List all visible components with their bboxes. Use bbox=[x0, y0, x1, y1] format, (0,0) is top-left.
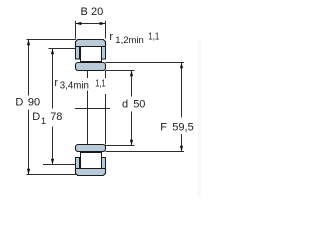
D arrow up bbox=[27, 40, 30, 46]
svg-text:1,1: 1,1 bbox=[95, 79, 106, 90]
leader vertical right bbox=[105, 71, 107, 145]
svg-text:1: 1 bbox=[41, 116, 46, 126]
B extension line left bbox=[75, 21, 77, 39]
B arrow right bbox=[100, 22, 106, 25]
d dimension line bbox=[131, 71, 133, 146]
svg-text:d: d bbox=[122, 99, 128, 111]
svg-text:90: 90 bbox=[28, 96, 40, 108]
F dimension line bbox=[181, 63, 183, 152]
leader vertical left bbox=[87, 71, 89, 145]
F arrow down bbox=[180, 146, 183, 152]
D1 extension line top bbox=[49, 48, 77, 50]
F arrow up bbox=[180, 63, 183, 69]
D1 extension line bottom bbox=[43, 164, 76, 166]
outer ring right flange (bottom) bbox=[102, 158, 106, 169]
roller (bottom) bbox=[81, 153, 102, 169]
D1 arrow down bbox=[51, 159, 54, 165]
svg-text:20: 20 bbox=[91, 6, 103, 18]
d arrow up bbox=[130, 71, 133, 77]
d extension line top bbox=[106, 70, 135, 72]
D dimension line bbox=[28, 40, 30, 175]
svg-text:1,2min: 1,2min bbox=[115, 35, 144, 46]
svg-text:D: D bbox=[15, 96, 23, 108]
B arrow left bbox=[76, 22, 82, 25]
outer ring left flange (bottom) bbox=[76, 158, 80, 169]
outer ring right flange bbox=[102, 47, 106, 60]
faint right edge strip bbox=[198, 40, 202, 197]
svg-text:1,1: 1,1 bbox=[148, 32, 159, 43]
roller (top) bbox=[81, 47, 102, 62]
svg-text:3,4min: 3,4min bbox=[60, 81, 89, 92]
outer ring band (bottom) bbox=[76, 169, 106, 176]
inner ring (bottom) bbox=[76, 145, 106, 152]
F extension line top bbox=[106, 62, 185, 64]
white boxes under labels (break dimension lines) bbox=[13, 96, 47, 110]
svg-text:D: D bbox=[32, 111, 40, 123]
svg-text:59,5: 59,5 bbox=[172, 122, 193, 134]
B dimension line bbox=[76, 23, 106, 25]
svg-text:r: r bbox=[54, 77, 58, 89]
d arrow down bbox=[130, 140, 133, 146]
axis cross line bbox=[75, 108, 110, 110]
D extension line top bbox=[27, 39, 77, 41]
inner ring (top) bbox=[76, 63, 106, 71]
D1 arrow up bbox=[51, 49, 54, 55]
B extension line right bbox=[105, 21, 107, 39]
svg-text:r: r bbox=[109, 31, 113, 43]
F extension line bottom bbox=[106, 151, 185, 153]
svg-text:F: F bbox=[160, 122, 167, 134]
D1 dimension line bbox=[52, 49, 54, 165]
outer ring left flange bbox=[76, 47, 80, 60]
svg-text:B: B bbox=[81, 6, 88, 18]
svg-text:78: 78 bbox=[50, 111, 62, 123]
d extension line bottom bbox=[106, 145, 135, 147]
D extension line bottom bbox=[27, 174, 77, 176]
outer ring band (top) bbox=[76, 40, 106, 47]
D arrow down bbox=[27, 169, 30, 175]
svg-text:50: 50 bbox=[133, 99, 145, 111]
